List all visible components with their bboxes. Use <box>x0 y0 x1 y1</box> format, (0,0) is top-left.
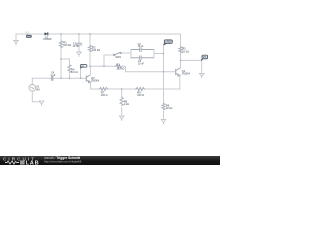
svg-text:100 kΩ: 100 kΩ <box>92 49 100 52</box>
resistor R5 <box>179 47 182 53</box>
ground GND3 under R6 <box>161 120 166 125</box>
ground GND2 under C1 <box>77 52 82 56</box>
junction dots <box>60 33 181 89</box>
svg-text:100 Ω: 100 Ω <box>137 94 144 97</box>
resistor R6 <box>162 104 165 110</box>
flag VB <box>80 65 87 69</box>
wire VOUT branch <box>181 60 202 73</box>
labels <box>36 35 191 110</box>
footer logo LAB <box>5 160 41 165</box>
wire collector Q1 <box>180 60 182 68</box>
wire RC rectangle right edge <box>153 50 155 58</box>
resistor R1 <box>59 41 62 47</box>
transistor Q2 <box>86 75 90 83</box>
svg-text:SIN: SIN <box>36 89 40 91</box>
svg-text:100 kΩ: 100 kΩ <box>116 68 124 71</box>
footer text line 2 <box>44 160 81 163</box>
capacitor C1 <box>76 43 81 45</box>
source V1 <box>29 85 36 92</box>
svg-text:10 kΩ: 10 kΩ <box>166 107 173 110</box>
footer text line 1 <box>44 156 80 160</box>
wire emitter Q1 <box>179 76 181 89</box>
svg-text:VREF: VREF <box>165 41 172 44</box>
wire V1 top <box>31 78 33 84</box>
wire vertical R2 branch <box>89 34 91 66</box>
wire R4 jog <box>61 59 70 78</box>
wire R5 branch <box>180 34 182 60</box>
svg-text:2N3904: 2N3904 <box>182 74 191 76</box>
svg-text:V1: V1 <box>36 85 40 89</box>
svg-text:10 nF: 10 nF <box>73 45 80 48</box>
svg-text:VO: VO <box>203 56 207 59</box>
wire flag VB stem <box>80 69 82 78</box>
wire R8 branch <box>121 89 123 116</box>
ground GND5 of V1 <box>39 101 44 106</box>
svg-text:Q2: Q2 <box>91 76 95 80</box>
wire RC rectangle left edge <box>130 50 132 58</box>
svg-text:100 kΩ: 100 kΩ <box>63 44 71 47</box>
resistor R4 <box>68 65 71 73</box>
svg-text:SW1: SW1 <box>115 55 121 59</box>
svg-text:1N4148: 1N4148 <box>43 39 52 41</box>
wire top rail <box>16 33 181 35</box>
svg-text:10 nF: 10 nF <box>138 63 144 65</box>
ground GND1 top-left <box>15 34 17 41</box>
svg-text:1 uF: 1 uF <box>50 74 55 77</box>
svg-text:2N3904: 2N3904 <box>91 80 100 82</box>
flag VIN <box>25 30 32 37</box>
ground arrow VOUT <box>199 73 204 78</box>
wire V1 bottom <box>32 91 39 102</box>
wire collector Q2 <box>89 66 91 75</box>
capacitor C2 <box>131 48 154 51</box>
svg-text:1 kΩ: 1 kΩ <box>124 103 129 106</box>
wire switch branch <box>104 55 114 66</box>
resistor R7 <box>99 88 108 91</box>
svg-text:100 Ω: 100 Ω <box>101 94 108 97</box>
resistor R2 <box>88 46 91 52</box>
svg-text:LAB: LAB <box>26 161 40 166</box>
svg-text:VIN: VIN <box>25 30 29 34</box>
wire base rail Q2 <box>32 77 85 79</box>
wire node B horizontal <box>90 65 115 67</box>
wire RC to VREF net <box>154 53 164 55</box>
flag VOUT <box>201 55 208 61</box>
wire emitter rail <box>90 82 179 89</box>
wire vertical R1 branch <box>60 34 62 78</box>
resistor R3 <box>115 65 122 68</box>
transistor Q1 <box>176 68 180 76</box>
wire switch to RC <box>121 52 131 54</box>
footer logo CIRCUIT <box>3 156 36 161</box>
capacitor C3 <box>131 56 154 59</box>
wire C1 branch <box>78 34 80 52</box>
flag VREF <box>164 40 173 45</box>
wire R3 to Q1 base <box>122 66 175 72</box>
svg-text:10 nF: 10 nF <box>138 46 144 48</box>
ground GND4 under R8 <box>119 116 124 121</box>
switch SW1 <box>115 52 121 55</box>
resistor R8 <box>120 98 123 106</box>
svg-text:10 kΩ: 10 kΩ <box>71 71 78 74</box>
svg-text:10 kΩ: 10 kΩ <box>182 50 189 53</box>
capacitor C4 <box>52 76 53 80</box>
svg-text:Q1: Q1 <box>182 69 186 73</box>
footer bar <box>0 156 220 165</box>
resistor R9 <box>136 88 145 91</box>
wire VREF vertical <box>163 45 165 119</box>
diode D1 <box>45 32 48 35</box>
